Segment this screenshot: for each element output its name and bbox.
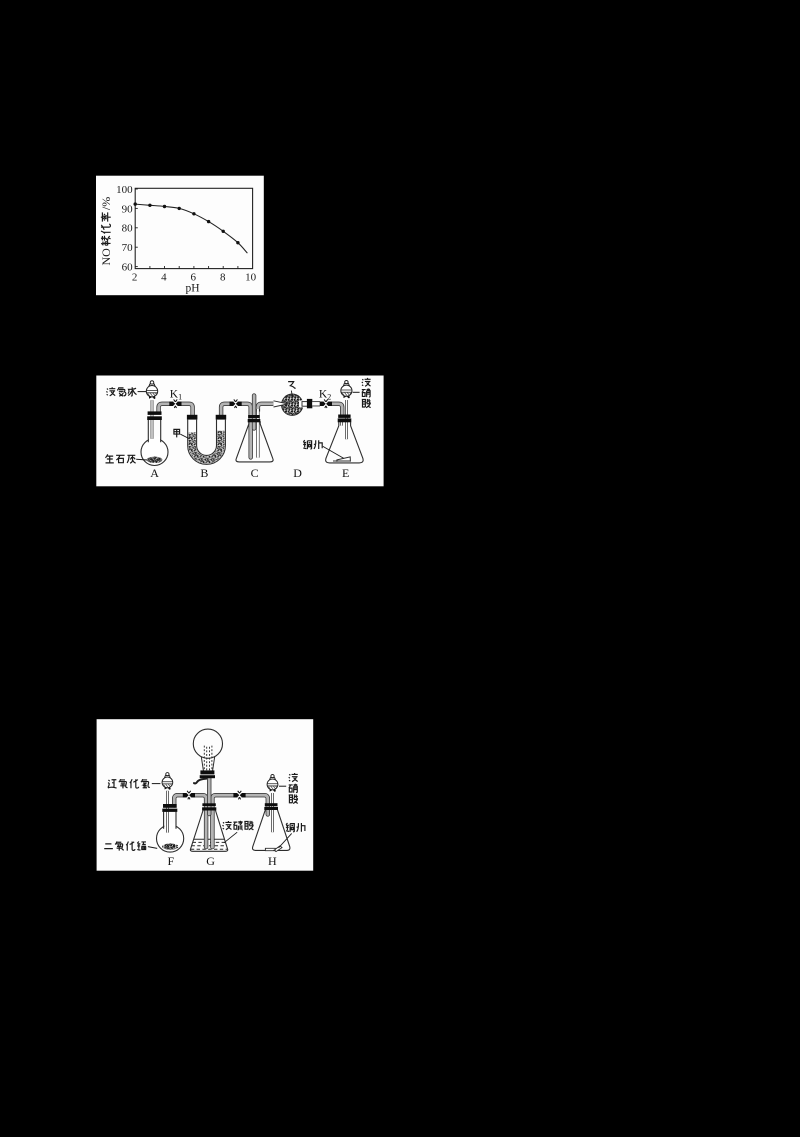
funnel F stem tube (166, 791, 169, 833)
svg-text:B: B (200, 466, 208, 480)
svg-text:100: 100 (116, 184, 133, 196)
light bulb stem tube in G (207, 778, 211, 814)
flask A bulb (141, 439, 168, 466)
sphere D (stippled ball) (282, 394, 303, 415)
apparatus panel A-E (96, 376, 383, 487)
funnel A stem tube (151, 400, 154, 439)
label 过氧化氢 (108, 779, 150, 788)
light bulb of G (193, 729, 222, 758)
label 生石灰 (105, 454, 135, 463)
dropping funnel on F (过氧化氢) (162, 773, 173, 790)
svg-text:/%: /% (99, 197, 113, 210)
svg-text:NO: NO (99, 248, 113, 266)
data curve (135, 204, 247, 253)
flask G body (190, 811, 227, 852)
flask F bulb (157, 825, 184, 852)
svg-text:80: 80 (122, 223, 134, 235)
valve G-H (233, 791, 245, 800)
pipe C to D (258, 404, 274, 412)
pipe F to G (down into G) (174, 795, 206, 847)
U-tube B outline (188, 420, 226, 465)
stopper G (202, 803, 215, 806)
funnel H stem tube (271, 793, 274, 832)
D sphere left taper (274, 401, 289, 407)
svg-text:4: 4 (161, 271, 167, 283)
svg-text:A: A (150, 466, 159, 480)
flask C center tube (252, 396, 256, 429)
bulb filament (dashed) (204, 746, 212, 771)
chart panel (96, 176, 264, 296)
wire/pipe A to B (159, 404, 193, 416)
valve between B and C (230, 399, 242, 408)
lime (生石灰) pile in A (147, 457, 163, 463)
pointer line 浓硫酸 (224, 832, 237, 843)
stopper C (248, 415, 260, 418)
flask E body (326, 422, 363, 463)
label 浓硝酸 (vertical) (289, 773, 298, 803)
dropping funnel on A (浓氨水) (146, 381, 157, 399)
funnel E stem tube (345, 400, 348, 439)
svg-text:8: 8 (220, 271, 226, 283)
svg-text:C: C (251, 466, 259, 480)
U-tube collars (187, 415, 198, 420)
flask A neck (148, 420, 160, 443)
label 浓氨水 (106, 387, 136, 396)
stopper F (163, 804, 177, 808)
svg-text:2: 2 (132, 271, 138, 283)
pipe G to H (212, 795, 267, 847)
wire/pipe B to C (into flask C long tube) (221, 404, 251, 458)
valve K2 (320, 399, 332, 408)
bulb base bands (200, 770, 214, 774)
stopper H (265, 803, 278, 806)
svg-text:H: H (268, 854, 277, 868)
label 二氧化锰 (104, 841, 146, 850)
label 铜片 (303, 440, 322, 449)
stopper A (two bands) (148, 411, 162, 415)
svg-text:6: 6 (191, 271, 197, 283)
copper piece in E (333, 457, 350, 462)
axis tick labels + pH label (116, 184, 257, 295)
pipe D to E (320, 404, 342, 415)
svg-text:G: G (206, 854, 215, 868)
flask H body (252, 810, 289, 851)
flask C outlet glass tube (256, 409, 259, 458)
liquid 浓硫酸 in G (194, 838, 225, 840)
label 甲 (174, 429, 180, 437)
svg-text:90: 90 (122, 203, 134, 215)
valve F-G (183, 791, 195, 800)
svg-text:70: 70 (122, 242, 134, 254)
axis ticks (135, 189, 238, 269)
dropping funnel on E (浓硝酸) (341, 380, 352, 398)
data points (134, 202, 240, 244)
svg-text:D: D (293, 466, 302, 480)
copper pieces in H (265, 846, 282, 852)
flask F neck (164, 812, 176, 829)
valve K1 (169, 399, 181, 408)
D to K2 glass tube (312, 401, 320, 406)
svg-text:E: E (342, 466, 349, 480)
label 浓硝酸 (vertical) (362, 378, 371, 408)
y axis title NO转化率/% (99, 197, 113, 266)
flask C body (236, 421, 273, 462)
label 浓硫酸 (223, 821, 254, 830)
svg-text:pH: pH (185, 283, 199, 295)
bulb support hook wire (194, 779, 207, 784)
svg-text:10: 10 (245, 271, 257, 283)
U-tube B packing (甲) (189, 431, 225, 464)
label 铜片 (286, 823, 305, 832)
MnO2 pile in F (162, 843, 178, 849)
stopper E (338, 415, 350, 418)
chart axes box (135, 188, 252, 268)
svg-text:F: F (168, 854, 175, 868)
E inlet stub (340, 422, 343, 426)
apparatus panel F-H (97, 719, 314, 871)
D right neck and collar (299, 400, 308, 408)
label 乙 (288, 382, 295, 389)
dropping funnel on H (浓硝酸) (267, 774, 278, 791)
